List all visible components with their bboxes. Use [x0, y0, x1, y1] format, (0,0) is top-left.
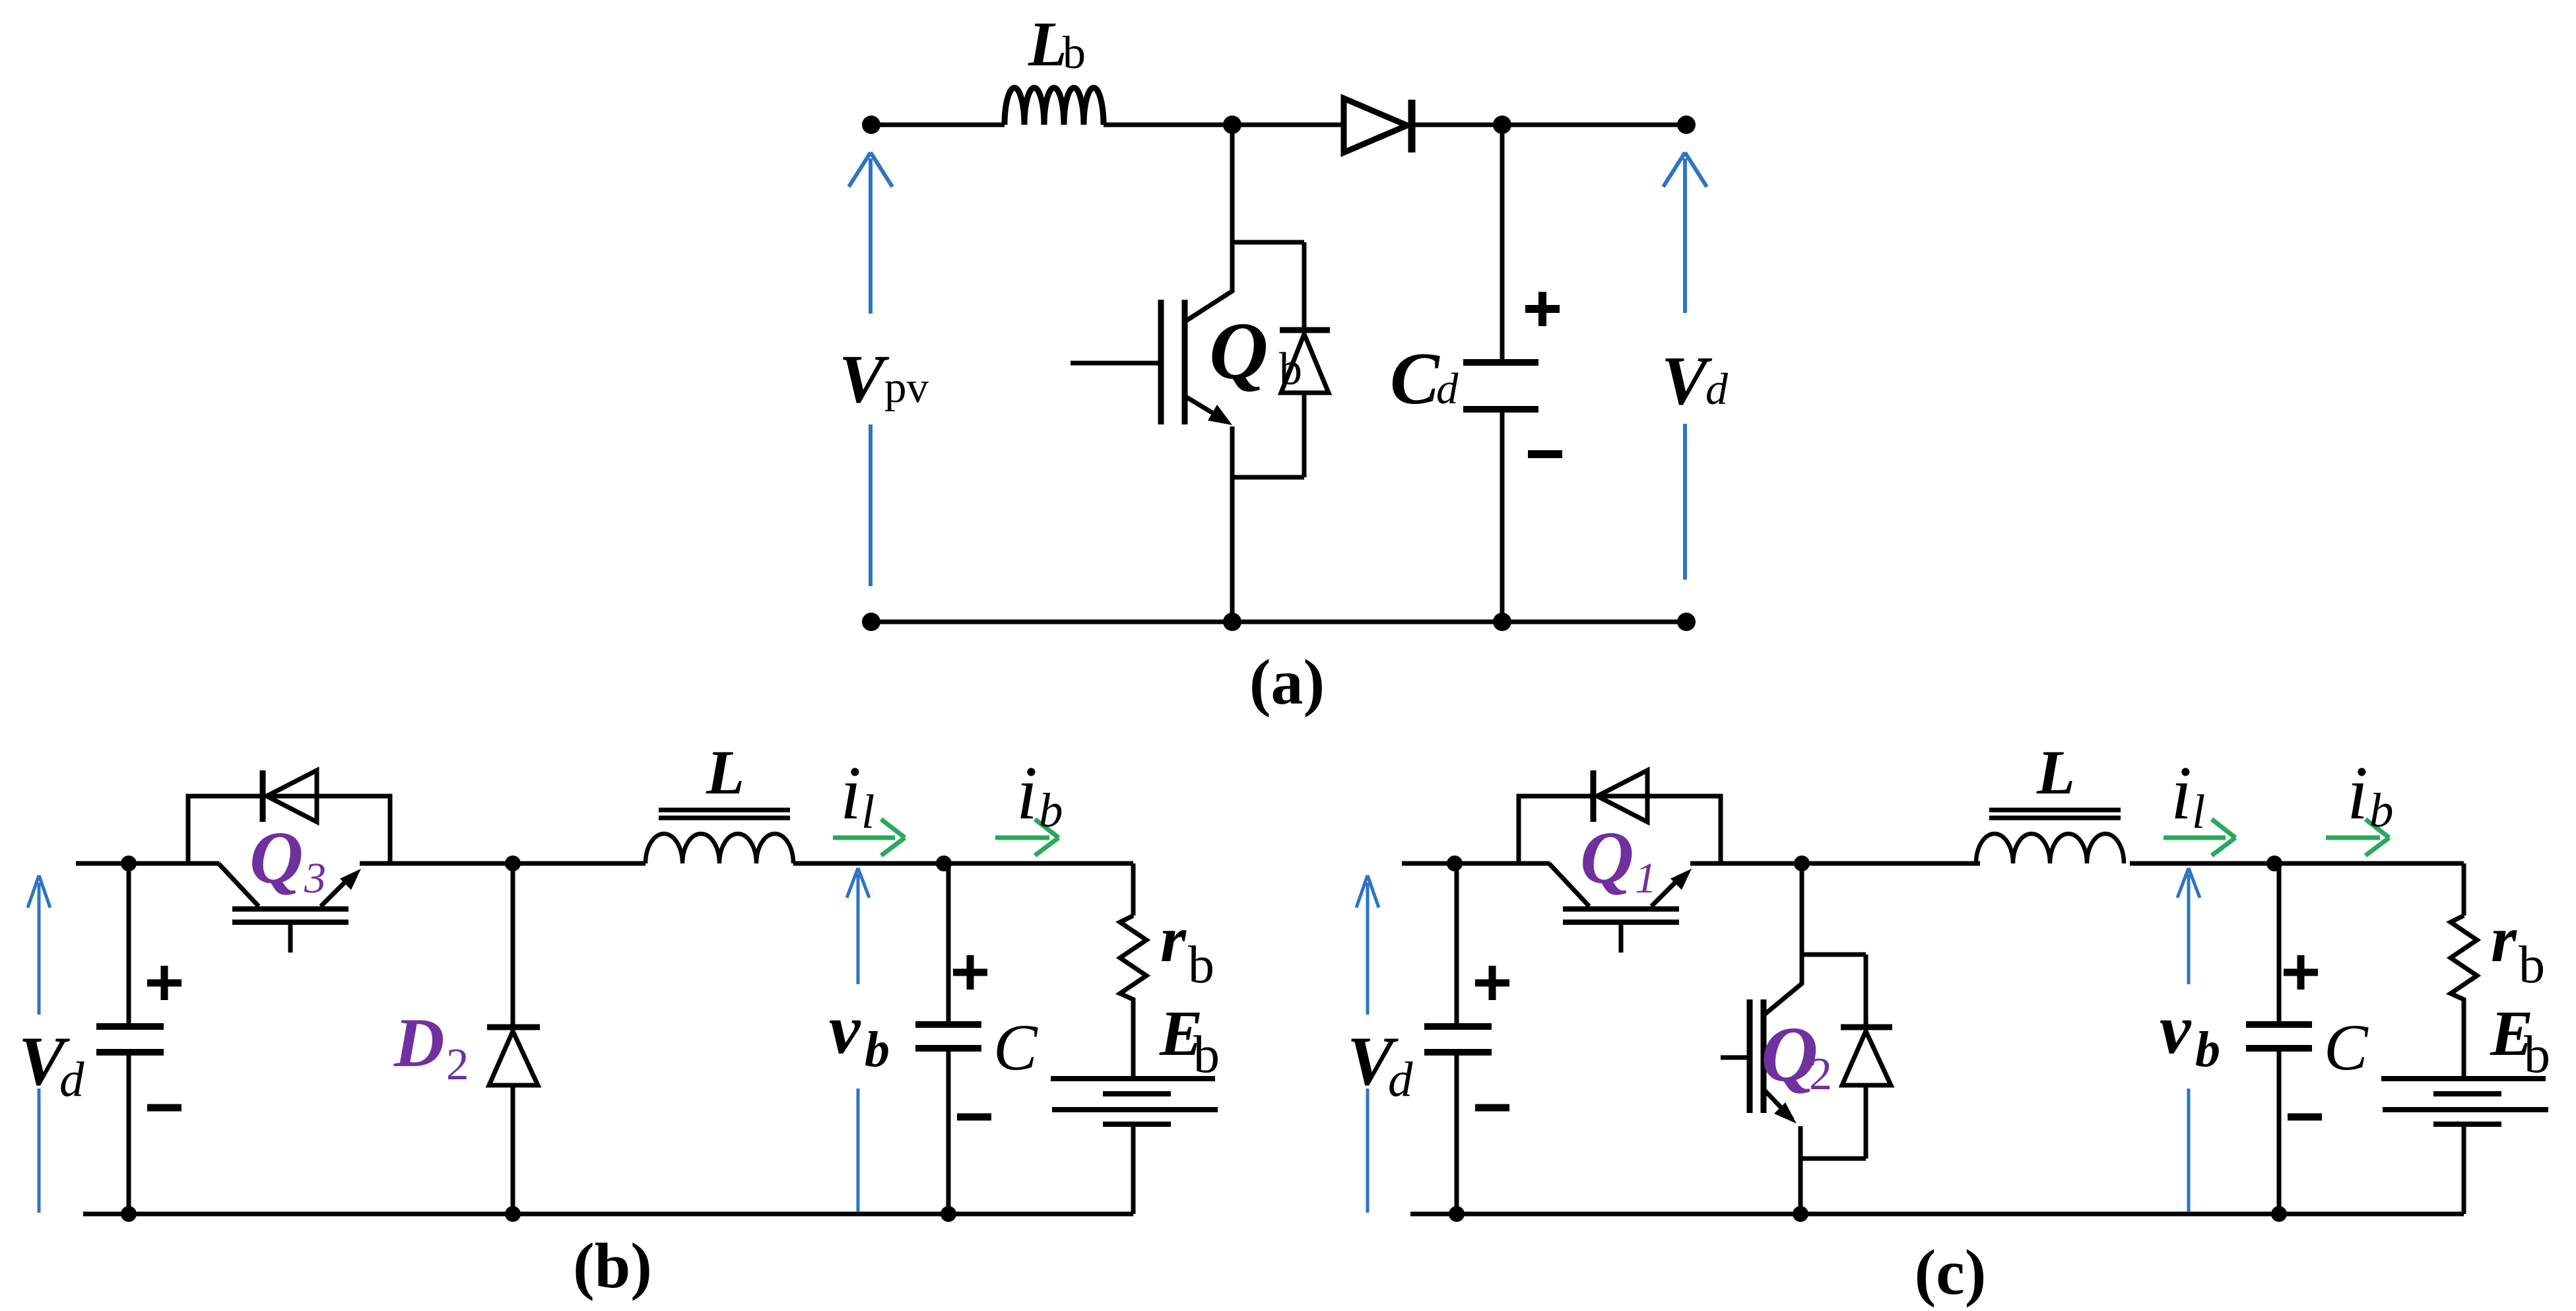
svg-text:b: b	[1039, 784, 1063, 837]
svg-text:Q: Q	[1209, 306, 1269, 396]
svg-text:Q: Q	[1580, 817, 1634, 899]
svg-text:b: b	[1279, 344, 1302, 395]
svg-text:V: V	[839, 341, 890, 417]
svg-text:D: D	[393, 1004, 445, 1081]
svg-text:(c): (c)	[1915, 1237, 1987, 1308]
svg-text:Q: Q	[249, 817, 304, 899]
svg-text:3: 3	[304, 854, 326, 902]
svg-text:b: b	[1063, 28, 1086, 79]
svg-text:i: i	[840, 751, 861, 835]
svg-text:r: r	[1160, 902, 1187, 976]
svg-text:b: b	[1193, 1026, 1220, 1084]
svg-text:(a): (a)	[1249, 647, 1325, 718]
svg-text:2: 2	[1809, 1049, 1832, 1100]
svg-text:d: d	[1436, 364, 1459, 413]
svg-text:(b): (b)	[573, 1230, 652, 1302]
svg-text:d: d	[59, 1052, 84, 1107]
svg-text:2: 2	[446, 1039, 469, 1089]
svg-text:C: C	[1390, 338, 1440, 420]
svg-text:pv: pv	[884, 363, 929, 412]
svg-text:d: d	[1705, 364, 1729, 414]
svg-text:b: b	[865, 1022, 890, 1077]
svg-text:C: C	[993, 1011, 1038, 1084]
svg-text:i: i	[1016, 751, 1038, 835]
svg-text:L: L	[1028, 9, 1067, 79]
svg-text:l: l	[861, 785, 875, 838]
svg-text:b: b	[1188, 936, 1214, 994]
svg-text:L: L	[706, 737, 744, 807]
svg-text:v: v	[829, 991, 861, 1069]
svg-text:1: 1	[1635, 854, 1657, 902]
